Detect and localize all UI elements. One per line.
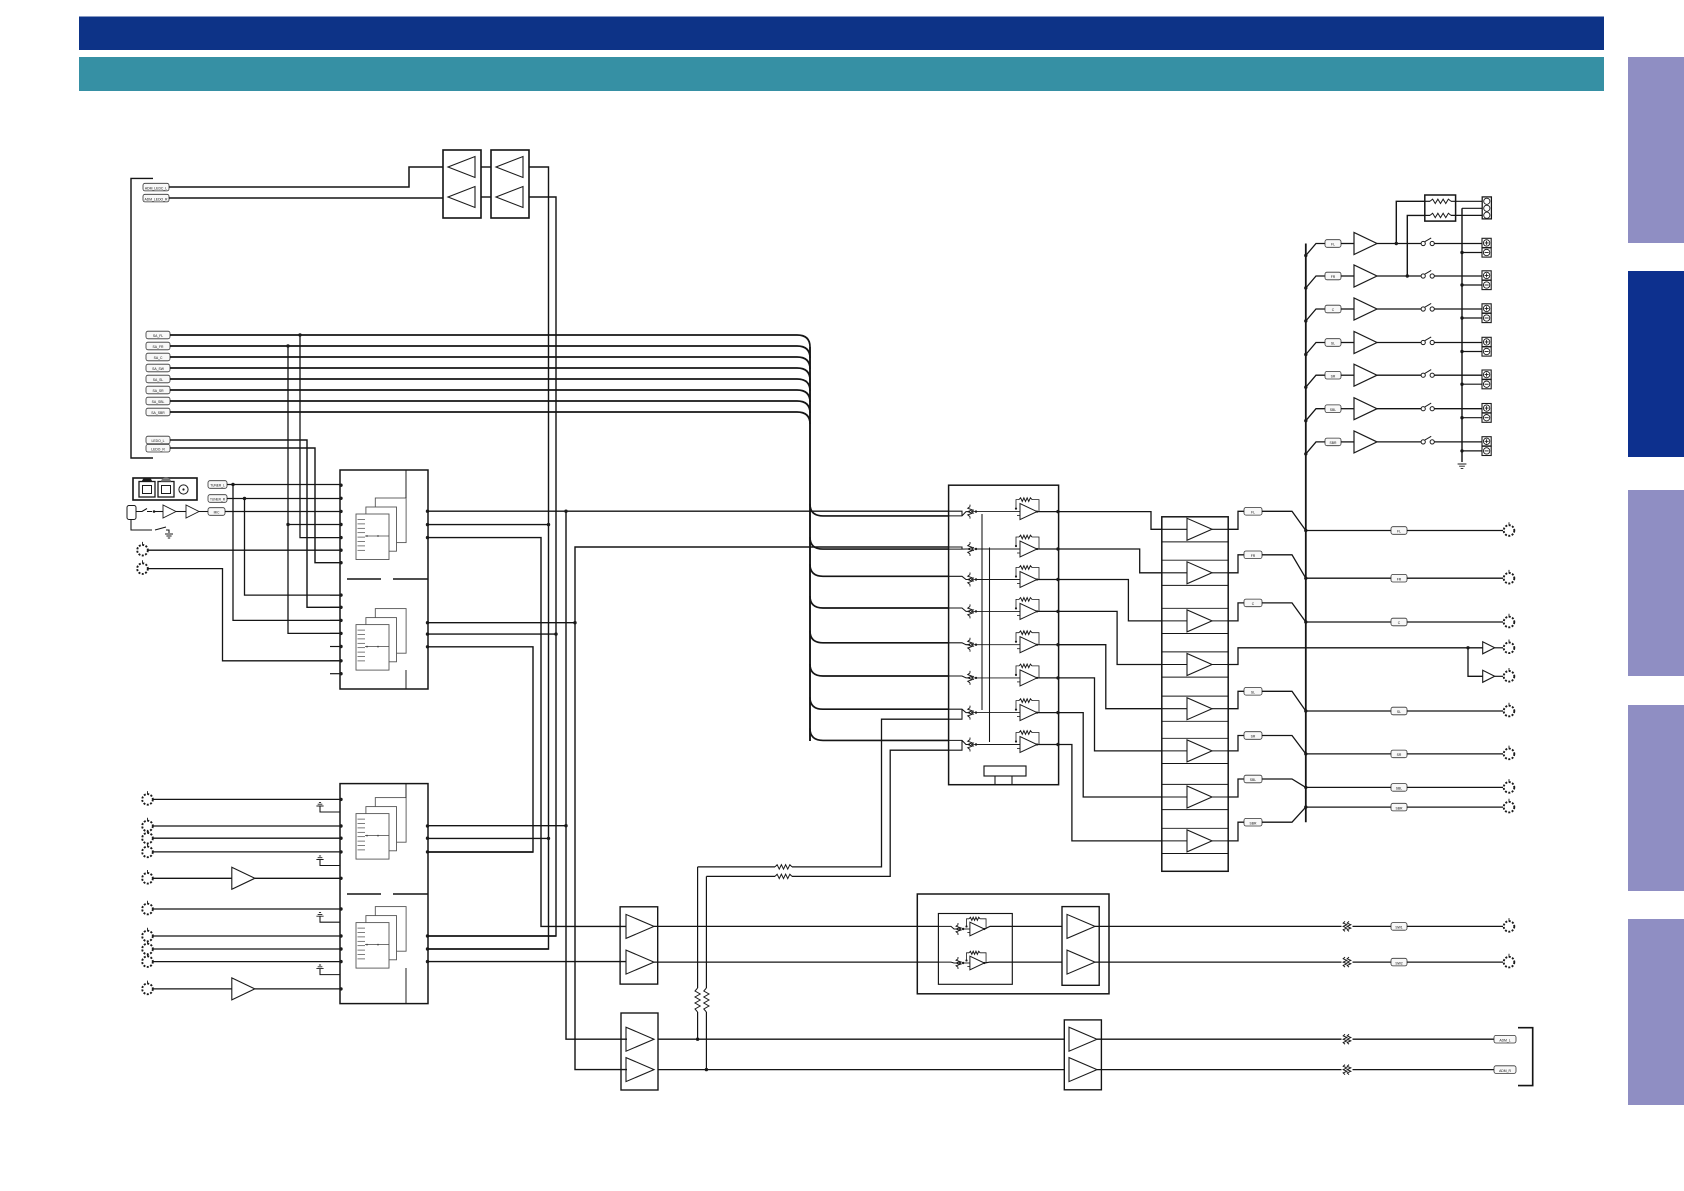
node ADM_L tag [1494, 1035, 1516, 1043]
svg-text:SR: SR [1397, 753, 1402, 757]
wire SA_C to bus [170, 357, 810, 369]
wire C to terminal [1434, 308, 1482, 310]
wire U10 outL2 join [428, 633, 556, 635]
pin U11 out 5 [426, 947, 429, 950]
buffer B1b [626, 950, 654, 974]
relay SBR [1421, 436, 1434, 444]
svg-text:FL: FL [1397, 530, 1401, 534]
wire B2b out [658, 1069, 1064, 1071]
buffer U30 stage 6 [1162, 740, 1228, 762]
wire SA_FL to bus [170, 335, 810, 347]
wire AUX L [148, 549, 340, 551]
wire jack to amp [154, 511, 163, 513]
terminal C plus [1482, 304, 1491, 313]
wire U20-U30 row 3 [1059, 580, 1162, 621]
wire analog in 1 [153, 798, 340, 800]
wire analog in 5 a [153, 877, 232, 879]
connector SW preout 2 [1504, 668, 1515, 682]
buffer B1a [626, 914, 654, 938]
svg-text:SA_SW: SA_SW [152, 367, 165, 371]
dac pages U10 upper [356, 498, 406, 560]
svg-text:SBL: SBL [1250, 778, 1257, 782]
junction bus tap C [1304, 319, 1307, 322]
node SBL preout tag [1391, 784, 1407, 792]
wire U11 out1 join [428, 825, 566, 827]
node FL tag [1244, 508, 1262, 516]
wire U11 pages link lower [405, 968, 407, 1004]
wire U10 pages link upper [405, 470, 407, 498]
junction V7 a [573, 621, 576, 624]
wire SR amp out [1377, 374, 1421, 376]
wire bus tap FL [1306, 244, 1325, 256]
buffer mic amp 2 [186, 505, 199, 518]
svg-text:MIC: MIC [214, 511, 221, 515]
svg-text:SA_SR: SA_SR [152, 389, 164, 393]
wire U11 out5 join V3 [428, 948, 549, 950]
wire U11 gnd pin 2 [320, 860, 340, 866]
connector phones jack [127, 506, 136, 520]
pin U11 in 4 [339, 850, 342, 853]
wire U10 out2 join [428, 524, 549, 526]
wire SR to amp [1341, 374, 1354, 376]
wire AUX R [148, 569, 340, 661]
terminal SBR minus [1482, 446, 1491, 455]
wire SW mix 2 [706, 875, 775, 877]
pin U10 left 7 [339, 561, 342, 564]
wire U30 out 3 [1228, 603, 1244, 621]
wire ADM bracket [1518, 1028, 1533, 1086]
wire analog in 4 [153, 851, 340, 853]
wire SBL amp out [1377, 408, 1421, 410]
amplifier SBR [1354, 431, 1377, 453]
wire gnd bus [1461, 208, 1463, 462]
wire analog in 5 b [255, 877, 340, 879]
connector phones jack out [1482, 197, 1491, 219]
junction jack [153, 510, 156, 513]
node MIC [208, 508, 225, 516]
wire bus branch 1 [810, 504, 949, 516]
wire B2a out [658, 1038, 1064, 1040]
connector analog in 4 [142, 844, 153, 858]
wire U11 gnd pin 4 [320, 969, 340, 975]
pin U20 out 2 [1056, 547, 1059, 550]
wire SW out 2 [1095, 961, 1342, 963]
header bar (navy) [79, 17, 1604, 51]
buffer U2 box [491, 150, 529, 218]
sw filter inner box [938, 914, 1012, 985]
junction V4 a [554, 632, 557, 635]
pin U20 out 7 [1056, 711, 1059, 714]
relay SR [1421, 370, 1434, 378]
wire R1 out [1451, 200, 1482, 202]
svg-text:SW1: SW1 [1395, 926, 1402, 930]
wire U30 out 8 [1228, 822, 1244, 841]
wire bus tap SBL [1306, 409, 1325, 421]
svg-text:SA_SL: SA_SL [153, 378, 164, 382]
buffer B3a [1067, 914, 1095, 938]
node SA_C [146, 353, 170, 361]
wire U11 pages link upper [405, 784, 407, 798]
wire SW mix 1 [698, 866, 775, 868]
buffer U30 stage 4 [1162, 654, 1228, 676]
node SPK SR tag [1325, 371, 1341, 379]
node SL preout tag [1391, 707, 1407, 715]
buffer B2a [626, 1027, 654, 1051]
svg-text:SR: SR [1331, 374, 1336, 378]
wire U30 feedback 3 [1162, 608, 1228, 633]
junction bus tap FR [1304, 286, 1307, 289]
buffer B3b [1067, 950, 1095, 974]
wire analog in 2 [153, 825, 340, 827]
pin U11 in 6 [339, 907, 342, 910]
junction SR gnd [1460, 383, 1463, 386]
buffer phono amp 2 [232, 978, 255, 1000]
wire SA_SBR to bus [170, 412, 810, 424]
pin U20 out 4 [1056, 610, 1059, 613]
op-amp volume stage 7 [949, 699, 1059, 721]
junction R2 feed [1406, 274, 1409, 277]
wire ADM out 1b [1353, 1038, 1495, 1040]
svg-text:ADM_LEDO_R: ADM_LEDO_R [145, 197, 169, 201]
pin U20 out 6 [1056, 676, 1059, 679]
wire SBL preout b [1407, 786, 1503, 788]
svg-text:SR: SR [1251, 735, 1256, 739]
pin U11 out 1 [426, 824, 429, 827]
pin U20 out 8 [1056, 743, 1059, 746]
connector SL preout jack [1504, 703, 1515, 717]
junction R1 feed [1395, 242, 1398, 245]
pin U11 in 3 [339, 837, 342, 840]
svg-text:SL: SL [1251, 691, 1255, 695]
wire SR preout b [1407, 753, 1503, 755]
buffer SW amp 1 [1483, 642, 1495, 654]
ferrite bead 4 [1343, 1065, 1351, 1075]
node FR preout tag [1391, 574, 1407, 582]
pin U11 in 10 [339, 987, 342, 990]
wire bus tap SR [1306, 375, 1325, 387]
pin U10 out lower 1 [426, 621, 429, 624]
node SBR preout tag [1391, 803, 1407, 811]
terminal SBR plus [1482, 437, 1491, 446]
op-amp sw stage 2 [956, 951, 986, 970]
wire U10 pages link lower [405, 670, 407, 689]
wire U30 out 2 [1228, 555, 1244, 573]
node SPK SBL tag [1325, 405, 1341, 413]
terminal FR minus [1482, 280, 1491, 289]
buffer B4b [1069, 1058, 1097, 1082]
wire analog in 7 [153, 935, 340, 937]
buffer U30 stage 5 [1162, 698, 1228, 720]
amplifier FL [1354, 233, 1377, 255]
wire U10 out1 to vol row1 [428, 510, 949, 512]
wire V6 row1 to B2 [566, 511, 627, 1039]
wire R2 feed [1407, 215, 1425, 276]
node SBR tag [1244, 818, 1262, 826]
junction bus SBL [1304, 786, 1307, 789]
svg-text:SA_FR: SA_FR [153, 345, 164, 349]
resistor R1 phones [1430, 199, 1451, 203]
wire audio bus vertical [809, 347, 811, 741]
svg-text:ADM_LEDC_L: ADM_LEDC_L [145, 186, 167, 190]
wire SL preout [1306, 710, 1391, 712]
buffer B4a [1069, 1027, 1097, 1051]
op-amp volume stage 4 [949, 598, 1059, 620]
node FL preout tag [1391, 527, 1407, 535]
pin U11 out 6 [426, 960, 429, 963]
terminal FR plus [1482, 271, 1491, 280]
wire SA_SR to bus [170, 390, 810, 402]
relay SL [1421, 337, 1434, 345]
buffer U30 stage 8 [1162, 830, 1228, 852]
wire SR preout [1306, 753, 1391, 755]
svg-text:SW2: SW2 [1395, 961, 1402, 965]
wire U30 feedback 5 [1162, 696, 1228, 721]
wire SBR preout [1306, 806, 1391, 808]
wire U30 out 1 [1228, 511, 1244, 529]
wire U30 out 6 [1228, 736, 1244, 751]
wire bus branch 6 [810, 664, 949, 676]
pin U10 left 5 [339, 536, 342, 539]
node LEDO_R [146, 444, 170, 452]
resistor SW mix 2 [775, 874, 792, 878]
node SR preout tag [1391, 750, 1407, 758]
wire U30 out 5 [1228, 691, 1244, 708]
pin U10 out 3 [426, 536, 429, 539]
svg-text:FR: FR [1331, 275, 1336, 279]
wire SW out 2b [1353, 961, 1392, 963]
wire U21 stubs [995, 776, 1012, 785]
op-amp volume stage 5 [949, 631, 1059, 653]
pin U10 left lower 4 [330, 632, 343, 635]
wire SR to terminal [1434, 374, 1482, 376]
wire U30 out 7 [1228, 779, 1244, 797]
wire U11 out4 join V4 [428, 935, 556, 937]
wire SBL to bus [1262, 779, 1306, 787]
svg-text:TUNER_L: TUNER_L [210, 484, 225, 488]
buffer U1a [448, 157, 475, 178]
resistor SW mix 1 [775, 865, 792, 869]
junction bus SL [1304, 709, 1307, 712]
junction bus tap SBR [1304, 452, 1307, 455]
connector analog in 9 [142, 953, 153, 967]
node SL tag [1244, 688, 1262, 696]
wire MIC [225, 511, 340, 513]
wire U30 feedback 1 [1162, 541, 1228, 543]
dac pages U11 lower [356, 907, 406, 969]
dsp U10 divider [347, 578, 428, 580]
svg-text:SBL: SBL [1396, 787, 1403, 791]
terminal SL minus [1482, 347, 1491, 356]
wire bus branch 3 [810, 564, 949, 576]
pin U10 left 6 [339, 549, 342, 552]
ground jack [165, 534, 173, 538]
connector FL preout jack [1504, 522, 1515, 536]
wire SR to bus [1262, 736, 1306, 754]
amplifier SL [1354, 332, 1377, 354]
pin U10 out 2 [426, 523, 429, 526]
pin U10 left 1 [339, 484, 342, 487]
pin U11 out 3 [426, 850, 429, 853]
junction SL gnd [1460, 350, 1463, 353]
buffer B2 box [621, 1013, 658, 1090]
wire TUNER_L [227, 483, 340, 621]
wire SBR to terminal [1434, 441, 1482, 443]
wire SW out 2c [1407, 961, 1503, 963]
svg-text:SA_C: SA_C [154, 356, 163, 360]
connector C preout jack [1504, 614, 1515, 628]
node SW2 tag [1391, 958, 1407, 966]
wire gnd to phones [1462, 207, 1482, 209]
wire V7 row2 to B2 [575, 547, 949, 1070]
pin U10 out lower 2 [426, 632, 429, 635]
wire LEDO_L [170, 440, 340, 607]
junction V3 b [547, 837, 550, 840]
svg-text:SBR: SBR [1330, 441, 1338, 445]
junction bus SR [1304, 752, 1307, 755]
buffer U1 box [443, 150, 481, 218]
wire jack sleeve [131, 520, 169, 534]
wire U20 pair row 1 [949, 511, 962, 516]
wire U20-U30 row 1 [1059, 512, 1162, 530]
wire SW line [1228, 648, 1483, 665]
wire C to amp [1341, 308, 1354, 310]
wire bus drop B stub [288, 524, 340, 526]
connector SW preout 1 [1504, 640, 1515, 654]
wire bus tap SL [1306, 343, 1325, 355]
wire U20 pair row 8 [949, 740, 962, 750]
terminal FL minus [1482, 248, 1491, 257]
junction bus drop B [286, 344, 289, 347]
junction V6 mid [564, 824, 567, 827]
junction FL gnd [1460, 251, 1463, 254]
wire analog in 10 b [255, 988, 340, 990]
wire U20 pair row 7 [949, 709, 962, 719]
pin U10 left lower 3 [330, 619, 343, 622]
wire analog in 3 [153, 837, 340, 839]
ferrite bead 1 [1343, 921, 1351, 931]
sidebar tab 1 (purple) [1628, 57, 1684, 243]
wire U30 feedback 6 [1162, 738, 1228, 763]
buffer SW amp 2 [1483, 670, 1495, 682]
wire SL to terminal [1434, 342, 1482, 344]
node LEDO_L [146, 436, 170, 444]
relay FL [1421, 238, 1434, 246]
svg-text:LEDO_R: LEDO_R [151, 447, 165, 451]
junction bus tap SR [1304, 386, 1307, 389]
buffer U1b [448, 187, 475, 208]
resistor box phones [1425, 195, 1456, 221]
connector SR preout jack [1504, 746, 1515, 760]
wire bus branch 5 [810, 631, 949, 643]
node SA_SL [146, 375, 170, 383]
wire analog in 10 a [153, 988, 232, 990]
wire C minus gnd [1462, 317, 1482, 319]
sidebar tab 5 (purple) [1628, 919, 1684, 1105]
junction RV left [696, 1038, 699, 1041]
pin U10 out lower 3 [426, 645, 429, 648]
wire amp1-amp2 [176, 511, 186, 513]
junction bus tap SL [1304, 353, 1307, 356]
svg-text:SA_FL: SA_FL [153, 334, 163, 338]
wire bus tap C [1306, 309, 1325, 321]
svg-text:SL: SL [1331, 342, 1335, 346]
dac pages U10 lower [356, 609, 406, 671]
wire ADM out 2b [1353, 1069, 1495, 1071]
ferrite bead 3 [1343, 1034, 1351, 1044]
wire bus branch 7 [810, 697, 949, 709]
node ADM_LEDO_R [143, 194, 169, 202]
wire TUNER_R [227, 497, 340, 595]
connector analog in 2 [142, 818, 153, 832]
wire U11 out3 to V1 [428, 851, 533, 853]
svg-text:SA_SBL: SA_SBL [152, 400, 165, 404]
volume U20 box [949, 485, 1059, 785]
node SPK SL tag [1325, 339, 1341, 347]
amplifier SR [1354, 364, 1377, 386]
node C tag [1244, 599, 1262, 607]
buffer U2b [496, 187, 523, 208]
wire bus tap SBR [1306, 442, 1325, 454]
wire FR preout b [1407, 577, 1503, 579]
wire U30 feedback 2 [1162, 560, 1228, 585]
junction bus tap FL [1304, 254, 1307, 257]
switch jack detect [136, 509, 152, 512]
junction V3 a [547, 523, 550, 526]
terminal C minus [1482, 313, 1491, 322]
junction bus SBR [1304, 805, 1307, 808]
svg-text:TUNER_R: TUNER_R [210, 498, 226, 502]
node C preout tag [1391, 618, 1407, 626]
wire U20-U30 row 7 [1059, 713, 1162, 797]
junction SW [1466, 646, 1469, 649]
wire SA_SW to bus [170, 368, 810, 380]
svg-text:FR: FR [1397, 577, 1402, 581]
pin U11 in 2 [339, 824, 342, 827]
node SA_FL [146, 331, 170, 339]
node SA_SR [146, 386, 170, 394]
wire C preout [1306, 621, 1391, 623]
terminal SR minus [1482, 380, 1491, 389]
buffer B3 box [1062, 907, 1099, 986]
wire bus branch 4 [810, 596, 949, 608]
connector SBL preout jack [1504, 779, 1515, 793]
node FR tag [1244, 551, 1262, 559]
wire R1 feed [1396, 201, 1425, 243]
wire analog in 9 [153, 961, 340, 963]
wire bus drop B [288, 346, 340, 633]
resistor ladder V left [695, 867, 700, 1039]
pin U20 out 1 [1056, 510, 1059, 513]
wire V3 ADM out1 down [428, 167, 549, 949]
wire LEDO_R [170, 448, 340, 563]
op-amp volume stage 6 [949, 664, 1059, 686]
wire FR preout [1306, 577, 1391, 579]
amplifier FR [1354, 265, 1377, 287]
wire ADM_LEDC_L to buffer [169, 167, 443, 187]
wire SBL to terminal [1434, 408, 1482, 410]
connector FR preout jack [1504, 570, 1515, 584]
wire ADM out 2 [1097, 1069, 1342, 1071]
svg-text:LEDO_L: LEDO_L [151, 439, 164, 443]
pin U20 out 3 [1056, 578, 1059, 581]
pin U11 in 7 [339, 934, 342, 937]
sidebar tab 2 (navy, active) [1628, 271, 1684, 457]
wire bus branch 8 [810, 728, 949, 740]
wire bus tap FR [1306, 276, 1325, 288]
wire SW out 1 [1095, 925, 1342, 927]
relay SBL [1421, 403, 1434, 411]
wire SA_FR to bus [170, 346, 810, 358]
